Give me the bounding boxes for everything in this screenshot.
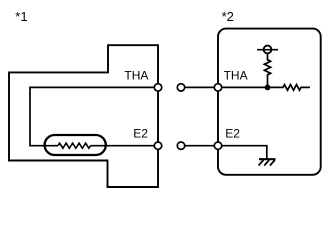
svg-text:E2: E2 (225, 127, 240, 141)
ground symbol bar (259, 158, 276, 160)
terminal E2 ECU (214, 142, 221, 149)
terminal THA ECU (214, 84, 221, 91)
wire THA inside ECU (218, 86, 268, 88)
svg-text:THA: THA (124, 69, 148, 83)
wire E2 inside ECU (218, 146, 267, 159)
power symbol circle (264, 46, 272, 54)
ground symbol hatch 2 (264, 160, 269, 166)
svg-text:THA: THA (224, 69, 248, 83)
connector circle THA harness (177, 84, 184, 91)
terminal E2 sensor (154, 142, 161, 149)
connector circle E2 harness (177, 142, 184, 149)
junction dot THA node (265, 85, 271, 91)
svg-text:E2: E2 (133, 127, 148, 141)
power symbol bar (257, 49, 278, 51)
pull-up resistor vertical zigzag (264, 54, 270, 87)
ground symbol hatch 3 (270, 160, 275, 166)
resistor horizontal zigzag (270, 85, 310, 91)
wire E2 harness segment (181, 145, 218, 147)
wire THA loop inside sensor (30, 87, 158, 145)
sensor body outline (9, 45, 158, 187)
thermistor oval (45, 135, 106, 155)
ECU box (218, 29, 321, 175)
wire THA harness segment (181, 86, 218, 88)
ground symbol hatch 1 (259, 160, 264, 166)
wire thermistor to E2 terminal (91, 145, 159, 147)
svg-text:*1: *1 (15, 9, 27, 24)
thermistor zigzag (58, 143, 91, 148)
svg-text:*2: *2 (222, 9, 234, 24)
terminal THA sensor (154, 84, 161, 91)
